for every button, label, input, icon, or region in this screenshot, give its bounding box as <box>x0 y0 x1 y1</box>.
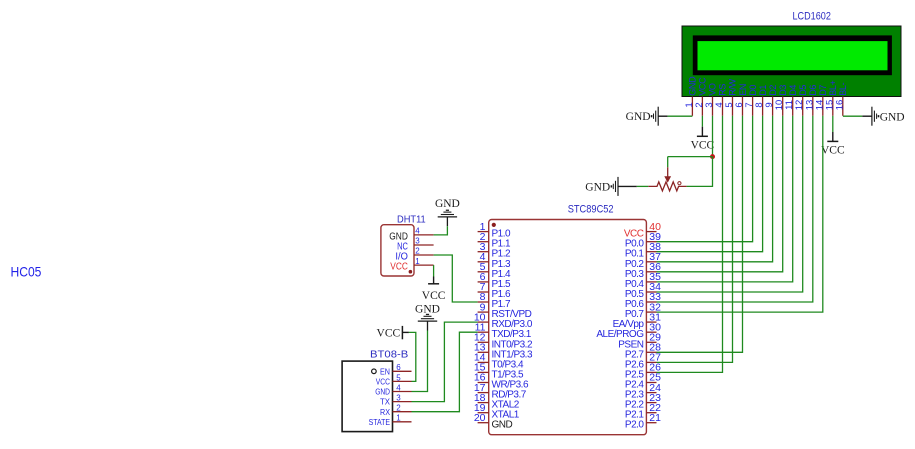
svg-text:GND: GND <box>415 303 440 315</box>
svg-text:D3: D3 <box>778 85 788 96</box>
svg-text:VCC: VCC <box>691 139 715 151</box>
svg-text:GND: GND <box>626 111 651 123</box>
wire LCD pin 10 to STC89C52 pin 36 <box>657 116 783 272</box>
svg-text:D7: D7 <box>818 85 828 96</box>
svg-text:RX: RX <box>380 408 391 417</box>
pot RV1 resistor body <box>648 182 686 191</box>
wire down to pot wiper <box>667 157 669 168</box>
svg-text:BL-: BL- <box>838 82 848 95</box>
svg-text:1: 1 <box>396 414 401 423</box>
DHT11 pin numbers 4-1 <box>415 227 420 266</box>
power terminal VCC under LCD pin 15 <box>832 116 834 132</box>
svg-text:GND: GND <box>688 76 698 96</box>
svg-text:VCC: VCC <box>422 290 446 302</box>
svg-text:VCC: VCC <box>390 262 408 273</box>
junction node at VO net <box>710 154 715 159</box>
wire LCD pin 13 to STC89C52 pin 33 <box>657 116 813 302</box>
svg-text:21: 21 <box>649 412 661 424</box>
pot RV1 wiper ring <box>678 182 681 185</box>
svg-text:BL+: BL+ <box>828 80 838 95</box>
wire LCD pin 6 to STC89C52 pin 28 <box>657 116 743 352</box>
svg-text:STATE: STATE <box>369 418 390 427</box>
svg-text:D0: D0 <box>748 85 758 96</box>
wire LCD pin 7 to STC89C52 pin 39 <box>657 116 753 242</box>
wire LCD pin 5 to STC89C52 pin 27 <box>657 116 733 363</box>
DHT11 pin names GND NC I/O VCC <box>389 232 408 273</box>
svg-text:4: 4 <box>396 383 401 392</box>
svg-text:VO: VO <box>708 83 718 96</box>
svg-text:D1: D1 <box>758 85 768 96</box>
svg-text:3: 3 <box>396 394 401 403</box>
wire pot right to junction <box>687 157 713 187</box>
svg-text:R/W: R/W <box>728 78 738 95</box>
BT08-B pin stubs 6-1 <box>393 371 412 422</box>
LCD1602 pin names GND..BL- <box>688 76 848 96</box>
svg-text:2: 2 <box>396 404 401 413</box>
DHT11 body <box>381 225 414 276</box>
LCD1602 screen <box>698 41 888 70</box>
svg-text:6: 6 <box>396 363 401 372</box>
wire LCD pin 4 to STC89C52 pin 26 <box>657 116 723 373</box>
svg-text:2: 2 <box>415 247 420 256</box>
BT08-B body <box>342 361 392 432</box>
svg-text:VCC: VCC <box>821 144 845 156</box>
svg-text:VCC: VCC <box>376 378 390 387</box>
ground terminal left of LCD pin 1 <box>657 107 659 126</box>
wire DHT11 I/O to P1.7 <box>434 255 478 302</box>
svg-text:DHT11: DHT11 <box>397 215 426 226</box>
wire LCD pin 3 down to junction <box>712 116 714 157</box>
wire LCD pin 12 to STC89C52 pin 34 <box>657 116 803 292</box>
STC89C52 right pin stubs <box>646 232 656 423</box>
svg-text:D5: D5 <box>798 85 808 96</box>
STC89C52 right pin numbers 40-21 <box>649 221 661 424</box>
ground terminal above DHT11 <box>446 210 449 211</box>
svg-text:4: 4 <box>415 227 420 236</box>
svg-text:RS: RS <box>718 84 728 96</box>
svg-text:EN: EN <box>380 367 390 376</box>
STC89C52 left pin names P1.0..GND <box>492 229 533 431</box>
svg-text:20: 20 <box>474 412 486 424</box>
ground terminal above BT08-B <box>426 314 429 315</box>
svg-text:P2.0: P2.0 <box>625 420 645 431</box>
pot RV1 wiper arrow <box>664 167 671 182</box>
power terminal VCC left of BT08-B <box>377 326 409 339</box>
wire BT08-B VCC pin 5 <box>409 332 416 381</box>
svg-text:VCC: VCC <box>377 327 401 339</box>
LCD1602 pin stubs 1-16 <box>692 97 842 116</box>
svg-text:1: 1 <box>415 257 420 266</box>
svg-text:GND: GND <box>880 112 905 124</box>
svg-text:5: 5 <box>396 373 401 382</box>
STC89C52 right pin names VCC..P2.0 <box>596 229 644 431</box>
wire LCD pin 8 to STC89C52 pin 38 <box>657 116 763 252</box>
wire junction left <box>668 156 713 158</box>
svg-text:BT08-B: BT08-B <box>370 349 409 360</box>
power terminal VCC under DHT11 pin 1 <box>433 265 435 276</box>
STC89C52 pin-1 marker dot <box>492 223 496 227</box>
svg-text:TX: TX <box>380 398 391 407</box>
wire LCD pin 11 to STC89C52 pin 35 <box>657 116 793 282</box>
svg-text:GND: GND <box>435 198 460 210</box>
svg-text:EN: EN <box>738 84 748 96</box>
wire LCD pin 9 to STC89C52 pin 37 <box>657 116 773 262</box>
svg-text:GND: GND <box>585 181 610 193</box>
wire BT08-B RX to TXD/P3.1 <box>412 332 478 412</box>
wire LCD pin 16 to right ground <box>843 115 862 117</box>
wire LCD pin 14 to STC89C52 pin 32 <box>657 116 823 312</box>
wire pot GND <box>637 185 649 187</box>
ground terminal left of pot <box>617 177 619 196</box>
svg-text:D4: D4 <box>788 85 798 96</box>
wire GND to LCD pin 1 <box>668 115 693 117</box>
wire DHT11 GND pin 4 <box>434 226 448 235</box>
DHT11 pin stubs 4-1 <box>414 235 434 265</box>
STC89C52 left pin numbers 1-20 <box>474 221 486 424</box>
svg-text:STC89C52: STC89C52 <box>568 203 614 215</box>
BT08-B pin names EN..STATE <box>369 367 391 427</box>
DHT11 corner marker dot <box>409 270 413 274</box>
BT08-B EN circle marker <box>372 369 377 374</box>
svg-text:HC05: HC05 <box>11 264 42 280</box>
LCD1602 screen bezel <box>693 35 892 75</box>
LCD1602 pin numbers 1-16 <box>684 100 845 110</box>
STC89C52 body <box>489 220 647 435</box>
svg-text:16: 16 <box>834 100 845 110</box>
svg-text:GND: GND <box>375 388 390 397</box>
svg-text:GND: GND <box>492 420 513 431</box>
BT08-B pin numbers 6-1 <box>396 363 401 423</box>
svg-text:3: 3 <box>415 237 420 246</box>
wire BT08-B TX to RXD/P3.0 <box>412 322 478 402</box>
ground terminal right of LCD pin 16 <box>871 107 873 126</box>
svg-text:D2: D2 <box>768 85 778 96</box>
svg-text:D6: D6 <box>808 85 818 96</box>
STC89C52 left pin stubs <box>478 232 489 423</box>
svg-text:VCC: VCC <box>698 77 708 96</box>
wire BT08-B GND pin 4 <box>412 331 428 392</box>
svg-text:LCD1602: LCD1602 <box>793 11 831 23</box>
LCD1602 body <box>682 26 901 97</box>
power terminal VCC under LCD pin 2 <box>701 116 703 127</box>
